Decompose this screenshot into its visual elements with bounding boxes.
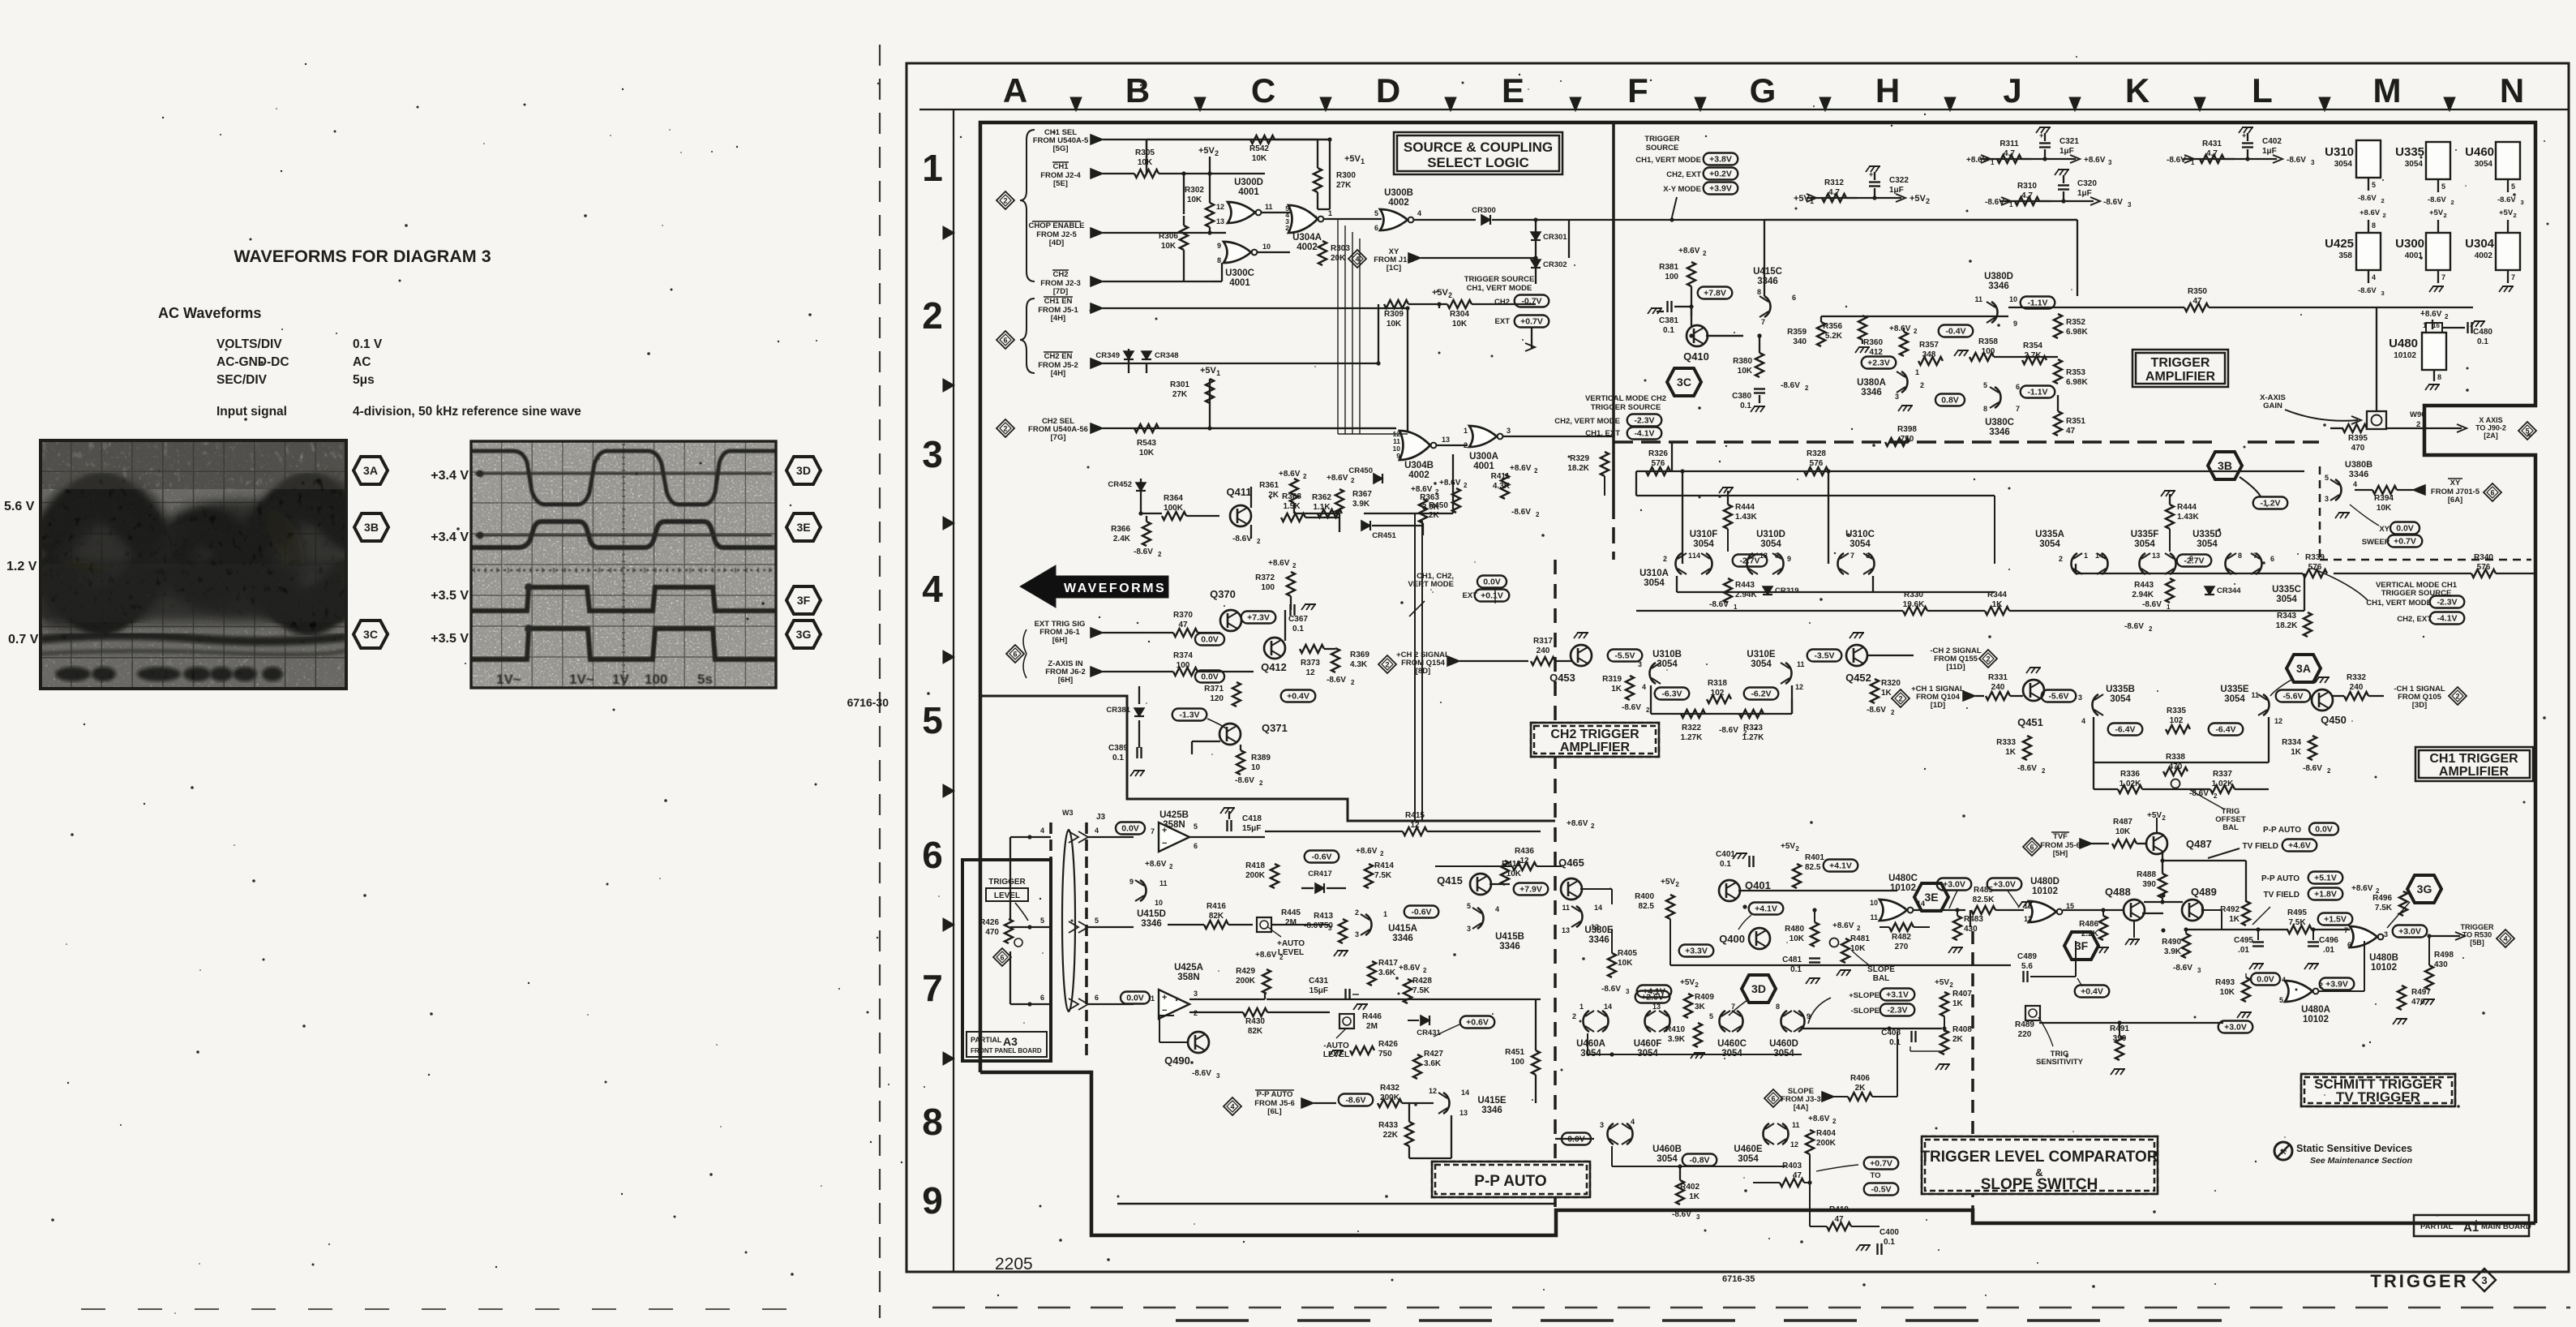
svg-text:8: 8	[2372, 221, 2376, 230]
svg-text:R495: R495	[2287, 908, 2307, 917]
staircase lower mid	[1971, 931, 1974, 1210]
svg-text:CH2, EXT: CH2, EXT	[1666, 170, 1701, 179]
svg-text:R366: R366	[1111, 525, 1130, 534]
svg-text:0.1: 0.1	[1663, 326, 1674, 335]
svg-text:1K: 1K	[1881, 689, 1892, 698]
svg-text:6716-30: 6716-30	[847, 696, 889, 709]
center dotted line	[471, 569, 776, 571]
svg-text:CH1: CH1	[1052, 162, 1069, 171]
svg-text:12: 12	[1216, 203, 1224, 211]
svg-text:R367: R367	[1352, 490, 1372, 499]
svg-text:2: 2	[1805, 384, 1809, 392]
svg-text:Q453: Q453	[1549, 672, 1575, 684]
svg-text:R358: R358	[1978, 337, 1998, 346]
input SLOPE FROM J3-3	[1764, 1089, 1782, 1107]
svg-text:U304: U304	[2465, 237, 2495, 251]
svg-text:-8.6V: -8.6V	[2358, 194, 2377, 203]
svg-text:2: 2	[1215, 149, 1219, 157]
svg-text:7.5K: 7.5K	[1374, 871, 1392, 880]
grid letters header line	[919, 109, 2569, 110]
svg-text:750: 750	[1378, 1050, 1392, 1059]
svg-text:2: 2	[1355, 908, 1359, 917]
wire u310 base feeds	[1604, 476, 1605, 496]
svg-text:R369: R369	[1350, 651, 1369, 659]
svg-text:358N: 358N	[1177, 973, 1200, 982]
svg-text:2M: 2M	[1285, 918, 1297, 927]
svg-text:2: 2	[1303, 473, 1307, 480]
svg-text:+: +	[1162, 826, 1167, 835]
board box PARTIAL A3	[962, 860, 1051, 1061]
rake q488	[2133, 920, 2135, 938]
dashed bus divider y545	[1614, 440, 2214, 444]
voltage 0.0V u425a	[1121, 992, 1150, 1004]
svg-text:R306: R306	[1159, 232, 1178, 241]
svg-text:2: 2	[1292, 562, 1297, 569]
svg-text:1μF: 1μF	[2262, 147, 2277, 156]
svg-text:-8.6V: -8.6V	[2103, 198, 2123, 207]
svg-text:5: 5	[1194, 822, 1198, 831]
voltage -2.7V u310	[1733, 555, 1768, 567]
right oscilloscope photo	[471, 441, 776, 688]
svg-text:U335F: U335F	[2131, 530, 2159, 539]
svg-text:[7G]: [7G]	[1051, 433, 1066, 442]
svg-text:+5V: +5V	[2429, 208, 2444, 217]
svg-text:TVF: TVF	[2053, 832, 2068, 841]
svg-text:8: 8	[1775, 552, 1779, 560]
svg-text:P-P AUTO: P-P AUTO	[2263, 826, 2301, 835]
svg-text:10K: 10K	[2377, 504, 2392, 513]
svg-text:+8.6V: +8.6V	[2351, 884, 2373, 893]
section box TRIGGER AMPLIFIER	[2132, 350, 2228, 387]
svg-text:3054: 3054	[2276, 595, 2297, 604]
svg-text:R445: R445	[1281, 908, 1301, 917]
pot trig offset	[2171, 779, 2180, 788]
svg-text:C402: C402	[2262, 137, 2282, 146]
svg-text:3346: 3346	[1988, 281, 2009, 291]
svg-text:U460C: U460C	[1717, 1039, 1747, 1049]
trace 3D square wave	[471, 451, 776, 505]
svg-text:576: 576	[1652, 459, 1665, 468]
svg-text:R488: R488	[2137, 870, 2156, 879]
connector J3 lines	[1049, 822, 1052, 1059]
svg-text:+: +	[2039, 131, 2043, 140]
svg-text:TO R530: TO R530	[2462, 931, 2492, 939]
svg-text:6: 6	[2490, 488, 2494, 496]
svg-text:3: 3	[2078, 694, 2082, 702]
svg-text:-8.6V: -8.6V	[1235, 776, 1254, 785]
diode CR451	[1361, 521, 1370, 530]
resistor R443 u335	[2166, 578, 2174, 603]
svg-text:7: 7	[2441, 273, 2445, 281]
pot R446	[1339, 1014, 1354, 1029]
input CH2 SEL	[997, 419, 1014, 437]
ic U460B arcs	[1607, 1123, 1614, 1144]
svg-text:82K: 82K	[1248, 1027, 1263, 1036]
wire tv field arrow	[2208, 848, 2240, 858]
svg-text:10: 10	[1155, 899, 1163, 907]
svg-text:CH1 TRIGGER: CH1 TRIGGER	[2429, 752, 2518, 766]
waveforms arrow	[1020, 565, 1168, 608]
svg-text:7: 7	[2253, 552, 2257, 560]
svg-text:U300B: U300B	[1384, 188, 1413, 198]
svg-text:7: 7	[1761, 318, 1765, 326]
svg-text:R351: R351	[2066, 417, 2085, 426]
svg-text:U480: U480	[2389, 337, 2418, 350]
svg-text:4002: 4002	[2475, 251, 2493, 260]
svg-text:U310B: U310B	[1652, 650, 1682, 659]
svg-text:3A: 3A	[363, 464, 378, 477]
svg-text:U310F: U310F	[1690, 530, 1718, 539]
waveform id hexagon 3A	[354, 457, 388, 484]
svg-text:2: 2	[1857, 925, 1861, 932]
svg-text:R372: R372	[1255, 573, 1275, 582]
voltage 0.0V tv	[2309, 823, 2338, 835]
svg-text:Q451: Q451	[2017, 716, 2043, 728]
input brace group 2	[1020, 298, 1035, 373]
voltage +3.0V a	[1937, 878, 1972, 891]
svg-text:3: 3	[1626, 988, 1630, 995]
svg-text:340: 340	[1793, 337, 1807, 346]
svg-text:4-division, 50 kHz reference s: 4-division, 50 kHz reference sine wave	[353, 405, 581, 419]
svg-text:PARTIAL: PARTIAL	[971, 1036, 1002, 1044]
svg-text:+3.1V: +3.1V	[1886, 990, 1909, 1000]
waveform id hexagon 3G	[787, 621, 821, 648]
svg-text:C489: C489	[2017, 952, 2037, 961]
wire trigger bus top	[1147, 139, 1330, 140]
svg-text:+5V: +5V	[2147, 811, 2162, 820]
svg-text:0.0V: 0.0V	[1201, 672, 1219, 682]
wire bottom comparator bus	[1535, 1075, 1537, 1103]
svg-text:CH2, EXT: CH2, EXT	[2397, 615, 2432, 624]
svg-text:TRIGGER SOURCE: TRIGGER SOURCE	[1464, 275, 1535, 284]
svg-text:14: 14	[1917, 900, 1925, 908]
svg-text:3.6K: 3.6K	[1378, 968, 1396, 977]
svg-text:[5B]: [5B]	[2470, 938, 2484, 947]
svg-text:1: 1	[2084, 552, 2088, 560]
svg-text:R400: R400	[1635, 892, 1654, 901]
svg-text:R428: R428	[1412, 977, 1432, 986]
svg-text:+0.7V: +0.7V	[1520, 317, 1543, 327]
svg-text:470: 470	[2351, 444, 2365, 453]
svg-text:CH1 EN: CH1 EN	[1044, 297, 1073, 306]
svg-text:10K: 10K	[1387, 320, 1402, 329]
svg-text:+5V: +5V	[2499, 208, 2514, 217]
svg-text:-4.1V: -4.1V	[1634, 429, 1654, 439]
svg-text:PARTIAL: PARTIAL	[2420, 1222, 2454, 1231]
svg-text:8: 8	[2238, 552, 2242, 560]
voltage -0.6V pp	[1305, 851, 1339, 863]
svg-text:C431: C431	[1309, 977, 1328, 986]
voltage 0.0V u425b	[1116, 822, 1145, 835]
svg-text:U425: U425	[2325, 237, 2354, 251]
svg-text:TO: TO	[1870, 1171, 1880, 1180]
svg-text:8: 8	[1217, 256, 1221, 264]
svg-text:2: 2	[1743, 729, 1747, 737]
wire tv field2 arrow	[2252, 907, 2270, 925]
pp-auto region bottom line	[1117, 1203, 1555, 1205]
svg-text:4002: 4002	[1408, 470, 1429, 480]
svg-text:R395: R395	[2348, 434, 2368, 443]
inner schematic border	[980, 122, 2535, 1223]
trace 3F pulse wave	[471, 587, 776, 611]
wire u335be bottom	[2093, 717, 2094, 762]
svg-text:CR452: CR452	[1108, 480, 1132, 489]
svg-text:TRIGGER: TRIGGER	[988, 878, 1026, 887]
svg-text:-2.7V: -2.7V	[2184, 556, 2204, 566]
input TVF	[2023, 838, 2041, 856]
svg-text:J: J	[2003, 71, 2021, 110]
svg-text:0.1: 0.1	[1292, 625, 1304, 633]
svg-text:Q450: Q450	[2321, 714, 2347, 726]
svg-text:6: 6	[1013, 650, 1017, 658]
dark center band	[24, 476, 373, 633]
svg-text:R329: R329	[1570, 454, 1589, 463]
svg-text:2: 2	[2444, 212, 2447, 219]
svg-text:0.1: 0.1	[2477, 337, 2488, 346]
svg-text:3346: 3346	[1392, 934, 1413, 943]
svg-text:2: 2	[1380, 850, 1384, 857]
svg-text:-2.3V: -2.3V	[1634, 416, 1654, 426]
section box SOURCE & COUPLING SELECT LOGIC	[1394, 132, 1562, 174]
svg-text:SOURCE & COUPLING: SOURCE & COUPLING	[1404, 140, 1553, 155]
svg-text:U300C: U300C	[1225, 268, 1254, 278]
svg-text:3.6K: 3.6K	[1424, 1059, 1442, 1068]
svg-text:R389: R389	[1251, 754, 1271, 762]
svg-text:3346: 3346	[1481, 1106, 1502, 1115]
divider ch2 trigger region	[1554, 560, 1557, 1210]
staircase border source logic bottom	[980, 696, 1555, 821]
transistor pair U335D	[2225, 553, 2231, 574]
svg-text:2: 2	[1464, 441, 1468, 449]
voltage -2.7V u335	[2177, 555, 2212, 567]
svg-text:CH2: CH2	[1494, 298, 1510, 307]
svg-text:-5.6V: -5.6V	[2048, 692, 2068, 702]
svg-text:18.2K: 18.2K	[2276, 621, 2298, 630]
transistor Q451	[2023, 680, 2044, 701]
svg-text:390: 390	[2142, 880, 2156, 889]
svg-text:CR301: CR301	[1543, 233, 1567, 242]
svg-text:1K: 1K	[2229, 915, 2240, 924]
ic U460D arcs	[1781, 1011, 1787, 1032]
svg-text:12: 12	[1591, 923, 1599, 931]
svg-text:-8.6V: -8.6V	[2287, 156, 2306, 165]
svg-text:CH1, VERT MODE: CH1, VERT MODE	[1635, 156, 1701, 165]
svg-text:R430: R430	[1245, 1017, 1265, 1026]
svg-text:F: F	[1627, 71, 1648, 110]
diode CR319	[1763, 586, 1772, 595]
voltage +7.3V	[1241, 612, 1276, 624]
svg-text:9: 9	[1787, 555, 1791, 563]
svg-text:R416: R416	[1207, 902, 1226, 911]
svg-text:4: 4	[1095, 827, 1099, 835]
svg-text:+3.9V: +3.9V	[1709, 184, 1732, 194]
hexagon 3D	[1742, 975, 1776, 1003]
scan noise specks	[1650, 79, 1652, 81]
svg-text:R303: R303	[1331, 244, 1350, 253]
svg-text:R426: R426	[1378, 1040, 1398, 1049]
svg-text:3G: 3G	[2417, 883, 2432, 895]
svg-text:+5V: +5V	[1344, 154, 1361, 164]
svg-text:100K: 100K	[1164, 504, 1184, 513]
svg-text:XY: XY	[2450, 479, 2461, 487]
connector wires	[1010, 836, 1051, 838]
svg-text:2: 2	[2455, 692, 2459, 700]
svg-text:Q465: Q465	[1558, 857, 1584, 869]
svg-text:7.5K: 7.5K	[2375, 904, 2393, 913]
svg-text:+3.4 V: +3.4 V	[431, 530, 469, 544]
svg-text:6: 6	[2347, 941, 2351, 949]
svg-text:⚒: ⚒	[2280, 1148, 2287, 1156]
svg-text:6: 6	[922, 834, 943, 876]
svg-text:3D: 3D	[1751, 982, 1766, 995]
svg-text:R350: R350	[2188, 287, 2207, 296]
svg-text:[6A]: [6A]	[2448, 496, 2462, 505]
svg-text:5: 5	[2441, 183, 2445, 191]
svg-text:+8.6V: +8.6V	[1255, 951, 1277, 960]
transistor Q489	[2182, 900, 2203, 921]
svg-text:1: 1	[1915, 368, 1919, 376]
svg-text:R302: R302	[1185, 186, 1204, 195]
voltage +2.6V	[1635, 991, 1670, 1003]
wire long ch1en	[1396, 433, 1408, 435]
svg-text:[5E]: [5E]	[1053, 179, 1068, 188]
svg-text:2: 2	[1385, 660, 1389, 668]
resistor R395	[2342, 424, 2367, 432]
svg-text:R482: R482	[1892, 933, 1911, 942]
svg-text:R451: R451	[1505, 1048, 1524, 1057]
wire x axis out	[2330, 427, 2343, 429]
svg-text:SLOPE SWITCH: SLOPE SWITCH	[1981, 1176, 2098, 1193]
capacitor C321	[2042, 157, 2047, 161]
transistor Q410	[1687, 325, 1708, 346]
svg-text:2: 2	[1795, 845, 1799, 852]
svg-text:3F: 3F	[797, 594, 811, 607]
svg-text:SOURCE: SOURCE	[1646, 144, 1679, 152]
svg-text:0.0V: 0.0V	[1201, 635, 1219, 645]
svg-text:1: 1	[1991, 159, 1995, 166]
voltage -5.6V q451	[2042, 690, 2077, 702]
svg-text:5: 5	[2511, 183, 2515, 191]
svg-text:SEC/DIV: SEC/DIV	[216, 373, 268, 387]
svg-text:-8.6V: -8.6V	[2167, 156, 2186, 165]
svg-text:18.2K: 18.2K	[1567, 464, 1589, 473]
trace 3E marker line	[475, 535, 772, 537]
diode CR302	[1531, 260, 1541, 268]
svg-text:C380: C380	[1732, 392, 1751, 401]
svg-text:+0.6V: +0.6V	[1466, 1018, 1489, 1028]
svg-text:2: 2	[1536, 511, 1540, 518]
svg-text:-1.3V: -1.3V	[1179, 711, 1199, 720]
voltage -1.3V	[1172, 709, 1207, 721]
svg-text:R353: R353	[2066, 368, 2085, 377]
svg-text:−: −	[1162, 839, 1167, 848]
svg-text:[11D]: [11D]	[1946, 663, 1965, 672]
svg-text:-8.6V: -8.6V	[2303, 764, 2322, 773]
hexagon 3G	[2407, 875, 2441, 903]
label X AXIS TO J90-2	[2457, 424, 2467, 432]
voltage -6.4V r	[2209, 724, 2244, 736]
svg-text:3: 3	[2384, 930, 2388, 938]
voltage +7.9V	[1514, 883, 1549, 895]
svg-text:2: 2	[2451, 199, 2454, 206]
svg-text:R492: R492	[2220, 905, 2240, 914]
static sensitive devices icon	[2274, 1142, 2292, 1160]
svg-text:+SLOPE: +SLOPE	[1849, 991, 1879, 1000]
svg-text:+7.8V: +7.8V	[1704, 289, 1726, 298]
svg-text:3A: 3A	[2296, 662, 2311, 675]
svg-text:6: 6	[1194, 842, 1198, 850]
svg-text:0.0V: 0.0V	[1483, 578, 1501, 587]
voltage 0.0V z	[1195, 671, 1224, 683]
svg-text:CHOP ENABLE: CHOP ENABLE	[1029, 221, 1085, 230]
svg-text:4: 4	[1495, 905, 1499, 913]
svg-text:TV FIELD: TV FIELD	[2264, 891, 2300, 900]
svg-text:1K: 1K	[2291, 748, 2302, 757]
svg-text:CR302: CR302	[1543, 260, 1567, 269]
svg-text:R406: R406	[1850, 1074, 1870, 1083]
svg-text:BAL: BAL	[2222, 823, 2239, 832]
svg-text:TRIGGER LEVEL COMPARATOR: TRIGGER LEVEL COMPARATOR	[1920, 1149, 2158, 1166]
svg-text:4.3K: 4.3K	[1350, 660, 1368, 669]
svg-text:15: 15	[2066, 902, 2074, 910]
svg-text:CR417: CR417	[1308, 870, 1332, 878]
svg-text:4: 4	[1631, 1118, 1635, 1126]
svg-text:+8.6V: +8.6V	[1279, 470, 1301, 479]
svg-text:+0.7V: +0.7V	[1870, 1159, 1892, 1169]
hexagon 3B	[2208, 452, 2242, 479]
transistor Q490	[1188, 1032, 1209, 1053]
svg-text:X-Y MODE: X-Y MODE	[1663, 185, 1701, 194]
wire ch2amp out	[1791, 699, 1793, 714]
svg-text:+8.6V: +8.6V	[2420, 310, 2442, 319]
svg-text:+: +	[2242, 131, 2246, 140]
svg-text:U304A: U304A	[1292, 233, 1322, 243]
section box CH1 TRIGGER AMPLIFIER	[2415, 747, 2533, 781]
resistor R352	[2054, 314, 2062, 338]
svg-text:R403: R403	[1782, 1162, 1802, 1170]
svg-text:5.6: 5.6	[2021, 962, 2033, 971]
wire select out down	[1671, 217, 1673, 220]
svg-text:CR319: CR319	[1775, 586, 1799, 595]
svg-text:G: G	[1750, 71, 1777, 110]
svg-text:10K: 10K	[2115, 827, 2131, 836]
svg-text:3346: 3346	[2349, 470, 2368, 479]
svg-text:SENSITIVITY: SENSITIVITY	[2036, 1058, 2084, 1067]
svg-text:1: 1	[2167, 603, 2171, 611]
svg-text:-6.4V: -6.4V	[2115, 725, 2135, 735]
svg-text:3054: 3054	[1849, 539, 1871, 549]
svg-text:0.1: 0.1	[1889, 1038, 1901, 1047]
svg-text:+: +	[1162, 993, 1167, 1003]
resistor R304	[1447, 300, 1472, 308]
svg-text:2: 2	[1695, 981, 1699, 989]
svg-text:+8.6V: +8.6V	[1510, 464, 1532, 473]
wire ch1en	[1407, 308, 1408, 434]
voltage +3.8V	[1704, 153, 1738, 165]
svg-text:R374: R374	[1173, 651, 1193, 660]
voltage +3.9V	[1704, 183, 1738, 195]
svg-text:R309: R309	[1384, 310, 1404, 319]
svg-text:R380: R380	[1733, 357, 1752, 366]
svg-text:Q370: Q370	[1210, 588, 1236, 600]
ic U415E	[1443, 1093, 1450, 1114]
svg-text:2: 2	[1914, 328, 1918, 335]
svg-text:[4A]: [4A]	[1794, 1103, 1808, 1112]
svg-text:Q488: Q488	[2105, 886, 2131, 898]
svg-text:-SLOPE: -SLOPE	[1851, 1007, 1879, 1016]
svg-text:27K: 27K	[1336, 181, 1352, 190]
svg-text:3: 3	[1216, 1072, 1220, 1080]
